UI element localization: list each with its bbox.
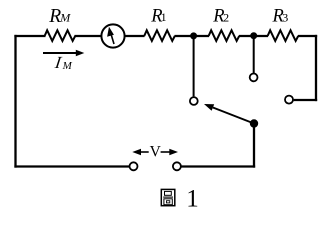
wire meter to R1 [125, 35, 145, 37]
switch pivot node [250, 119, 258, 127]
node A (junction dot after R1) [190, 32, 197, 39]
svg-text:M: M [62, 60, 73, 72]
terminal V-right (open circle) [173, 162, 181, 170]
resistor R1 [144, 30, 175, 41]
wire bottom-left horizontal [14, 165, 129, 167]
caption 圖 (figure) drawn glyph [161, 189, 175, 205]
current arrow IM [43, 52, 78, 54]
wire right bottom horizontal to terminal c [294, 99, 318, 101]
meter G circle [101, 24, 124, 47]
wire R3 to right corner [298, 35, 317, 37]
wire R1 to R2 [175, 35, 210, 37]
resistor R2 [209, 30, 240, 41]
wire R2 to R3 [239, 35, 268, 37]
svg-text:V: V [150, 143, 162, 160]
meter needle [111, 34, 114, 44]
switch arm with arrowhead [213, 108, 254, 124]
terminal c (open circle) [285, 96, 293, 104]
wire switch vertical riser [253, 124, 255, 168]
wire right vertical [315, 35, 317, 101]
svg-text:M: M [59, 11, 71, 25]
wire top-left segment [14, 35, 45, 37]
node B (junction dot after R2) [250, 32, 257, 39]
svg-text:1: 1 [161, 10, 167, 24]
resistor RM [45, 30, 76, 41]
svg-text:2: 2 [223, 11, 229, 25]
wire left vertical [14, 35, 16, 168]
terminal a (open circle) [190, 97, 198, 105]
wire RM to meter [75, 35, 102, 37]
svg-text:1: 1 [186, 185, 199, 212]
svg-text:3: 3 [282, 10, 288, 24]
terminal b (open circle) [250, 74, 258, 82]
terminal V-left (open circle) [130, 162, 138, 170]
wire node A down to terminal a [193, 36, 195, 96]
resistor R3 [268, 30, 299, 41]
V measurement label arrows [139, 151, 149, 153]
wire bottom-right horizontal [181, 165, 255, 167]
wire node B down to terminal b [253, 36, 255, 73]
